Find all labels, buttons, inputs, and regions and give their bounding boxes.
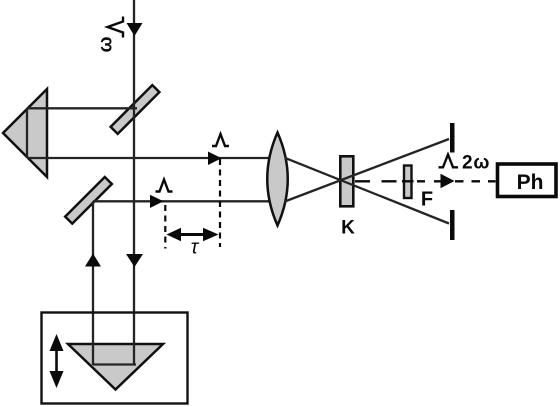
double arrow: stage translation bbox=[55, 348, 58, 374]
arrow: upper beam rightward bbox=[208, 152, 222, 166]
dashed SHG axis: crystal to filter bbox=[355, 180, 403, 182]
translation stage box bbox=[42, 313, 188, 404]
crystal K bbox=[340, 156, 353, 206]
svg-text:Ph: Ph bbox=[517, 171, 544, 194]
wire: return beam segment inside prism bbox=[92, 343, 94, 365]
wire: converging beam upper-to-lower bbox=[285, 158, 449, 224]
double arrow tau bbox=[178, 233, 206, 236]
filter F bbox=[404, 166, 412, 199]
svg-text:K: K bbox=[341, 218, 355, 239]
lens bbox=[267, 133, 288, 226]
pulse symbol on upper beam bbox=[212, 134, 229, 146]
pulse symbol on lower beam bbox=[156, 180, 173, 192]
pulse symbol (rotated) on input beam bbox=[108, 17, 124, 38]
arrow: SHG beam rightward bbox=[441, 174, 455, 188]
arrow: lower beam rightward bbox=[150, 195, 164, 208]
beam block bottom bbox=[450, 210, 455, 240]
mirror M2 bbox=[65, 177, 112, 224]
wire: horizontal beam to left prism (upper arm) bbox=[27, 107, 137, 109]
svg-text:τ: τ bbox=[191, 237, 200, 259]
dashed delay marker left bbox=[164, 205, 166, 249]
dashed delay marker right bbox=[219, 159, 221, 247]
arrow: return beam upward bbox=[85, 254, 101, 267]
wire: beam path inside left prism bbox=[26, 108, 28, 158]
wire: lower horizontal beam to lens bbox=[93, 200, 270, 202]
dashed SHG axis: arrow to Ph bbox=[455, 180, 496, 182]
wire: upper horizontal beam to lens bbox=[27, 157, 270, 159]
wire: converging beam lower-to-upper bbox=[285, 139, 449, 202]
pulse symbol on SHG beam bbox=[439, 155, 459, 168]
arrow: input beam downward bbox=[127, 23, 143, 36]
arrow: main beam downward (to moving prism) bbox=[126, 254, 143, 267]
dashed SHG axis: filter to arrow bbox=[417, 180, 441, 182]
retroreflector prism (movable, bottom) bbox=[68, 344, 163, 390]
beam block top bbox=[450, 123, 455, 153]
photodetector box Ph bbox=[498, 164, 557, 197]
wire: down beam segment inside prism bbox=[133, 343, 135, 365]
wire: input beam vertical (omega) bbox=[133, 0, 135, 365]
svg-text:ω: ω bbox=[96, 36, 117, 52]
svg-text:2ω: 2ω bbox=[462, 153, 490, 174]
wire: beam path inside bottom prism bbox=[93, 363, 136, 365]
beamsplitter BS1 bbox=[111, 85, 160, 134]
svg-text:F: F bbox=[421, 189, 433, 211]
retroreflector prism (fixed, left) bbox=[3, 89, 47, 177]
wire: return beam vertical (from moving prism) bbox=[92, 201, 94, 365]
